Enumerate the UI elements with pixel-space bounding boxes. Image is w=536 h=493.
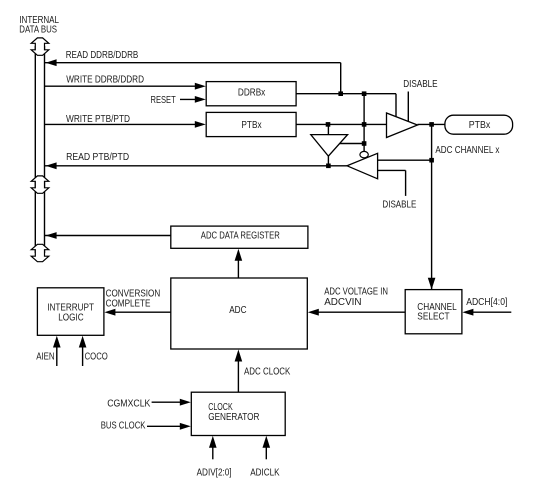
wire pin to channel select [428,124,436,289]
svg-text:DDRBx: DDRBx [238,88,266,99]
register PTBx [206,112,296,136]
wire ADICLK input [250,436,279,479]
wire READ PTB/PTD [45,152,347,169]
wire channel select to ADC [308,309,405,316]
label CONVERSION COMPLETE [106,289,161,310]
wire DDRB enable vertical to bubble [363,94,365,152]
buffer keeper (down-pointing) [311,124,367,165]
wire clock generator to ADC (ADC CLOCK) [235,350,291,393]
wire CGMXCLK input [107,399,191,410]
wire ADC to ADC data register [235,249,243,278]
wire AIEN input [36,336,60,366]
svg-text:SELECT: SELECT [417,312,450,323]
svg-text:ADC CHANNEL x: ADC CHANNEL x [435,145,500,156]
wire PTBx output to buffer [296,122,386,127]
pin PTBx [445,115,513,134]
wire ADC data register to bus [45,232,171,239]
svg-text:COMPLETE: COMPLETE [106,298,151,309]
wire WRITE DDRB/DDRD [45,75,206,90]
svg-text:DISABLE: DISABLE [403,79,437,90]
wire BUS CLOCK input [101,421,191,432]
block INTERRUPT LOGIC [37,288,104,336]
wire internal data bus channel (double line) [35,46,44,253]
svg-text:ADC: ADC [229,305,247,316]
svg-text:ADCVIN: ADCVIN [324,297,361,308]
svg-text:DATA BUS: DATA BUS [19,24,57,35]
svg-text:PTBx: PTBx [241,120,262,131]
svg-text:COCO: COCO [85,351,108,362]
svg-text:ADICLK: ADICLK [250,468,279,479]
wire buffer output to pin [418,122,445,127]
svg-text:GENERATOR: GENERATOR [208,412,260,423]
bus connector symbol bottom [31,244,49,261]
svg-text:READ DDRB/DDRB: READ DDRB/DDRB [66,50,139,61]
block ADC [171,278,307,349]
svg-text:CGMXCLK: CGMXCLK [107,399,150,410]
wire DDRBx output [296,91,396,117]
node INTERNAL DATA BUS label [19,15,59,35]
svg-text:WRITE DDRB/DDRD: WRITE DDRB/DDRD [66,75,144,86]
wire READ DDRB/DDRB [45,50,341,94]
wire ADCH[4:0] input [462,297,511,316]
svg-text:RESET: RESET [151,95,177,106]
svg-text:ADC CLOCK: ADC CLOCK [244,366,290,377]
register ADC DATA REGISTER [171,226,308,248]
block CHANNEL SELECT [405,290,462,334]
svg-text:WRITE PTB/PTD: WRITE PTB/PTD [66,114,130,125]
svg-text:PTBx: PTBx [469,120,491,131]
svg-text:BUS CLOCK: BUS CLOCK [101,421,146,432]
block CLOCK GENERATOR [191,392,285,435]
svg-text:READ PTB/PTD: READ PTB/PTD [66,152,129,163]
svg-text:ADC DATA REGISTER: ADC DATA REGISTER [201,230,280,241]
svg-text:ADCH[4:0]: ADCH[4:0] [466,297,507,308]
svg-text:ADIV[2:0]: ADIV[2:0] [197,468,232,479]
bus connector symbol middle [31,176,49,193]
bus connector symbol top [31,38,49,55]
svg-text:DISABLE: DISABLE [382,200,416,211]
register DDRBx [206,82,296,106]
buffer output driver (right-pointing) [387,113,418,138]
svg-text:AIEN: AIEN [36,351,54,362]
wire COCO input [79,336,108,366]
wire WRITE PTB/PTD [45,114,206,128]
wire ADC to interrupt logic [104,309,170,316]
svg-text:ADC VOLTAGE IN: ADC VOLTAGE IN [324,286,388,297]
wire RESET [151,95,206,106]
buffer input read (left-pointing) with bubble [347,151,432,195]
svg-text:LOGIC: LOGIC [58,312,84,323]
wire ADIV[2:0] input [197,436,232,479]
label ADC VOLTAGE IN ADCVIN [324,286,388,308]
wire DISABLE top to output buffer [407,92,409,122]
